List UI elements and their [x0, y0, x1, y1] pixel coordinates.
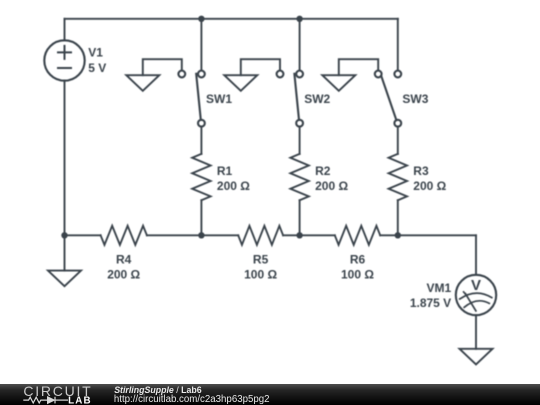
wire V1 top lead	[64, 19, 66, 41]
wire down to voltmeter	[475, 235, 477, 274]
ground GND-SW3 with bent wire	[322, 59, 378, 91]
node dot bus at R3	[395, 232, 401, 238]
voltage source V1	[44, 40, 84, 80]
resistor R5	[238, 226, 283, 245]
wire V1 bottom lead	[64, 81, 66, 236]
wire VM1 to ground	[475, 315, 477, 349]
ground GND-SW1 with bent wire	[126, 59, 182, 91]
ground GND-SW2 with bent wire	[224, 59, 280, 91]
node dot bus at V1	[61, 232, 67, 238]
switch SW1	[178, 71, 204, 127]
svg-text:http://circuitlab.com/c2a3hp63: http://circuitlab.com/c2a3hp63p5pg2	[114, 394, 270, 405]
node dot top rail at SW2	[296, 16, 302, 22]
wire bus segment R6 to VM branch	[380, 234, 476, 236]
wire SW1 common to R1	[200, 127, 202, 154]
wire SW2 drop from rail	[299, 19, 301, 71]
voltmeter VM1	[456, 275, 496, 315]
resistor R1	[192, 154, 210, 200]
logo schematic squiggle (resistor + diode)	[23, 397, 68, 404]
wire top rail	[65, 18, 398, 20]
svg-text:LAB: LAB	[68, 395, 92, 405]
resistor R6	[335, 226, 380, 245]
wire R1 to bus	[200, 200, 202, 235]
node dot bus at R1	[198, 232, 204, 238]
ground GND-VM1	[460, 349, 493, 365]
wire R3 to bus	[397, 200, 399, 235]
ground GND1 (under V1)	[48, 235, 81, 286]
resistor R3	[389, 154, 407, 200]
footer bar	[0, 384, 540, 405]
wire R2 to bus	[299, 200, 301, 235]
wire SW3 drop from rail	[397, 19, 399, 71]
wire bus segment R4 to R5	[147, 234, 238, 236]
switch SW3 (thrown to ground side)	[375, 71, 401, 127]
wire SW2 common to R2	[299, 127, 301, 154]
resistor R2	[290, 154, 308, 200]
wire bus segment R5 to R6	[283, 234, 335, 236]
wire bus segment left of R4	[65, 234, 101, 236]
node dot bus at R2	[296, 232, 302, 238]
resistor R4	[101, 226, 147, 245]
wire SW1 drop from rail	[200, 19, 202, 71]
wire SW3 common to R3	[397, 127, 399, 154]
node dot top rail at SW1	[198, 16, 204, 22]
switch SW2	[277, 71, 303, 127]
